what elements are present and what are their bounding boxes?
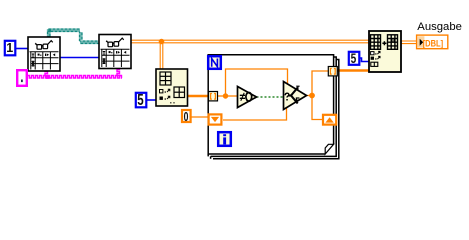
function: Select [284,82,307,110]
wire: blue I32 from constant 1 to node A [16,48,29,50]
loop page-curl fold bottom-right [325,144,333,154]
loop left tunnel (auto-index input) [209,92,218,101]
constant: numeric 0 (DBL, orange) [182,110,191,122]
wire: blue I32 node A to node B [59,57,100,59]
wire: blue I32 from constant 5 to Index Array node [146,99,157,101]
wire: blue I32 from constant 5 to Insert node [358,58,370,62]
node: Index Array (extract row) [156,69,188,106]
shift register left terminal (down arrow) [209,114,222,124]
constant: empty string (magenta) [17,70,27,86]
junction dot on 2D wire [159,39,165,45]
wire: orange 1D-array from loop right tunnel to Insert node [335,69,369,72]
wire: green dashed boolean from NotEqual0 to Select [257,96,284,98]
loop iteration terminal i [218,132,231,146]
wire: magenta string wire from string constant under node A and node B [26,69,122,79]
svg-text:0: 0 [184,110,189,124]
wire: scalar orange inside loop (tunnel to junction, up/over to Select t input, into NotEqual0) [216,69,329,120]
node: Replace Array Subset [369,31,401,72]
node: Read-From-Spreadsheet-File VI (glasses icon) #2 [99,35,131,69]
svg-text:1: 1 [6,41,13,55]
indicator: Ausgabe [DBL] array indicator terminal [417,35,448,49]
svg-text:[DBL]: [DBL] [423,38,443,49]
junction on string wire below node A [46,76,49,79]
wire: orange scalar from constant 0 to left shift register [191,116,208,118]
for loop border (stacked sheets) [208,55,339,159]
wire: orange 2D-array from Insert node to Ausgabe indicator [400,41,417,44]
constant: numeric 5 (for Insert node) [349,52,360,65]
wire: orange 1D-array from Index Array to loop left tunnel [187,95,209,98]
wire: orange 2D-array DBL double wire from node B to Insert node [130,40,369,70]
svg-text:Ausgabe: Ausgabe [417,21,462,33]
constant: numeric 1 (I32) [5,41,16,56]
svg-text:5: 5 [351,51,357,67]
function: Not Equal To 0? [238,87,257,108]
constant: numeric 5 (for Index Array) [136,93,147,108]
junction dot left inside loop [223,93,228,98]
svg-text:5: 5 [137,92,144,109]
loop count terminal N [208,56,221,69]
plus glyph between grids [382,41,386,45]
loop right tunnel (auto-index output) [328,67,337,76]
shift register right terminal (up arrow) [323,115,336,125]
junction dot right inside loop [309,93,315,99]
node: Read-From-Spreadsheet-File VI (glasses icon) #1 [28,37,60,71]
wire: teal path wire node A top to node B left [48,29,100,44]
